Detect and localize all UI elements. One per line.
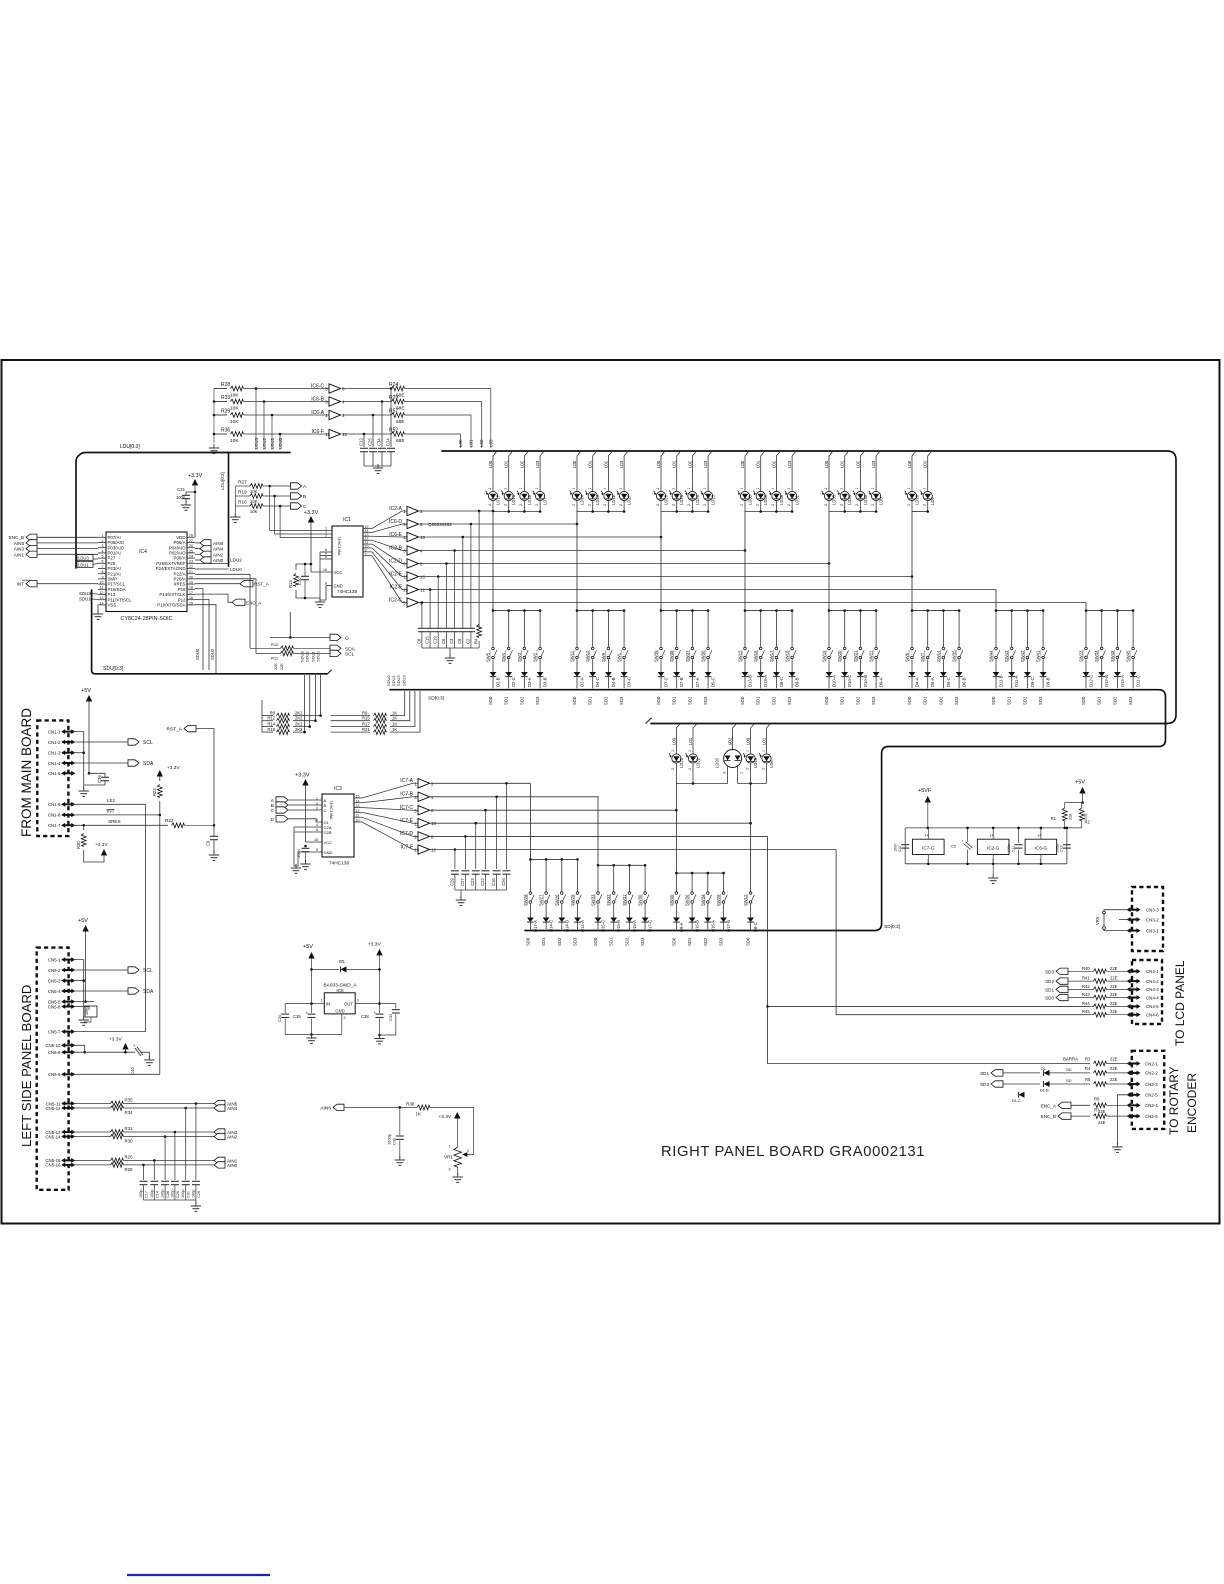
diode D14-C xyxy=(545,904,547,918)
wire to gate xyxy=(244,414,330,416)
svg-text:100p: 100p xyxy=(161,1190,165,1198)
svg-text:C16: C16 xyxy=(491,878,496,886)
svg-text:R19: R19 xyxy=(238,490,247,496)
svg-text:D11-C: D11-C xyxy=(1136,675,1141,687)
svg-text:SW1: SW1 xyxy=(617,652,622,662)
svg-text:C22: C22 xyxy=(480,878,485,886)
bus SDU[0:3] xyxy=(92,590,328,674)
svg-text:CN1-3: CN1-3 xyxy=(48,751,61,756)
wire scan row 2 xyxy=(429,796,599,798)
svg-text:74HC138A: 74HC138A xyxy=(329,800,334,820)
svg-text:VR5: VR5 xyxy=(1095,916,1100,925)
svg-text:AIN0: AIN0 xyxy=(227,1163,238,1168)
wire to L-bus xyxy=(405,402,482,449)
svg-text:100p: 100p xyxy=(139,1190,143,1198)
svg-text:C34: C34 xyxy=(377,438,382,446)
svg-text:2: 2 xyxy=(771,504,775,506)
svg-text:22: 22 xyxy=(189,565,193,569)
ic IC6-G power pins xyxy=(1025,839,1057,854)
svg-text:L01: L01 xyxy=(588,460,593,468)
svg-text:+3.3V: +3.3V xyxy=(295,773,310,779)
svg-text:LD17: LD17 xyxy=(496,494,501,505)
LED LD35 xyxy=(829,451,833,490)
svg-text:R36: R36 xyxy=(221,428,230,434)
svg-text:SD3: SD3 xyxy=(1045,969,1054,974)
net tag AIN6 xyxy=(195,542,200,544)
svg-text:SDU2: SDU2 xyxy=(210,648,215,660)
svg-text:SD0: SD0 xyxy=(572,696,577,705)
bus LDU vertical branch xyxy=(228,453,230,567)
svg-text:R42: R42 xyxy=(1082,984,1090,989)
switch SW6 xyxy=(911,611,913,647)
svg-text:L03: L03 xyxy=(787,460,792,468)
svg-text:22E: 22E xyxy=(1110,1009,1118,1014)
power +5V xyxy=(86,695,92,702)
pin CN4-5 xyxy=(1128,1005,1139,1007)
svg-text:+5VF: +5VF xyxy=(918,788,932,794)
svg-text:8: 8 xyxy=(325,582,327,586)
pin 7 P23/AI xyxy=(98,568,106,570)
LED LD29 xyxy=(761,451,765,490)
svg-text:IC7-B: IC7-B xyxy=(400,792,413,798)
diode D4-A xyxy=(911,660,913,673)
pin CN2-6 xyxy=(1128,1115,1139,1117)
pin 22 P24/EXTAGND xyxy=(187,568,195,570)
ground of regulator input xyxy=(311,1034,313,1038)
wire row D to CN4-5 xyxy=(768,836,1091,1063)
diode D5 xyxy=(312,968,340,970)
svg-text:OUT: OUT xyxy=(344,1001,353,1006)
svg-text:100n: 100n xyxy=(85,1007,89,1015)
capacitor C32 xyxy=(380,1004,396,1009)
svg-text:D1: D1 xyxy=(1041,1067,1046,1071)
pin 28 VDD xyxy=(187,536,195,538)
svg-text:R35: R35 xyxy=(125,1098,134,1103)
svg-text:1: 1 xyxy=(671,750,675,752)
resistor R44 22E xyxy=(1094,1004,1107,1009)
svg-text:CN4-4: CN4-4 xyxy=(1146,995,1159,1000)
wire switch group top join xyxy=(530,858,577,860)
label LDU2 xyxy=(195,563,229,565)
capacitor C38 polarized xyxy=(379,1004,381,1013)
svg-text:R15: R15 xyxy=(362,716,370,721)
svg-text:22E: 22E xyxy=(1110,992,1118,997)
svg-text:D6-A: D6-A xyxy=(930,677,935,687)
svg-text:7: 7 xyxy=(365,552,367,556)
wire left vertical input rail xyxy=(213,389,215,444)
wire switch group top join xyxy=(829,610,876,612)
gate IC2-D xyxy=(407,559,419,568)
LED LD23 xyxy=(708,451,712,490)
svg-text:10K: 10K xyxy=(250,499,258,504)
svg-text:22E: 22E xyxy=(1110,976,1118,981)
diode D10-C xyxy=(844,660,846,673)
net tag RST_A at XRES xyxy=(195,583,240,585)
svg-text:R45: R45 xyxy=(1082,1009,1090,1014)
svg-text:SD1: SD1 xyxy=(609,937,614,946)
svg-text:L00: L00 xyxy=(656,460,661,468)
wire select row 5 xyxy=(418,563,829,565)
net tag ENC_A xyxy=(195,594,232,602)
resistor network CN5-5 CN5-6 xyxy=(74,1001,95,1003)
LED LD20 dual xyxy=(733,724,737,750)
svg-text:SW22: SW22 xyxy=(869,650,874,662)
svg-text:D14-A: D14-A xyxy=(580,920,585,932)
svg-text:SD1: SD1 xyxy=(980,1071,989,1076)
svg-text:R34: R34 xyxy=(125,1110,134,1115)
svg-text:LDU1: LDU1 xyxy=(270,437,275,449)
net tag C xyxy=(263,505,291,507)
svg-text:L00: L00 xyxy=(458,439,463,447)
pin CN2-5 xyxy=(1128,1094,1139,1096)
svg-text:D4-A: D4-A xyxy=(915,677,920,687)
svg-text:C14: C14 xyxy=(155,1191,159,1198)
svg-text:8: 8 xyxy=(102,570,104,574)
svg-text:1: 1 xyxy=(761,750,765,752)
capacitor C13 100n xyxy=(1063,844,1071,846)
svg-text:D14-B: D14-B xyxy=(564,920,569,932)
svg-text:2: 2 xyxy=(871,504,875,506)
svg-text:R13: R13 xyxy=(288,580,293,588)
svg-text:R25: R25 xyxy=(125,1167,134,1172)
svg-text:D7-C: D7-C xyxy=(664,677,669,687)
capacitor C35 polarized xyxy=(311,1004,313,1013)
potentiometer VR1 xyxy=(454,1147,462,1167)
svg-text:LD19: LD19 xyxy=(915,494,920,505)
wire switch group top join xyxy=(577,610,624,612)
svg-text:IC2-C: IC2-C xyxy=(389,597,402,603)
svg-text:SD1: SD1 xyxy=(1097,696,1102,705)
svg-text:SW20: SW20 xyxy=(837,650,842,662)
svg-text:LD5: LD5 xyxy=(879,497,884,505)
diode D17-A xyxy=(529,904,531,918)
switch SW42 xyxy=(1026,611,1028,647)
net tag AIN0 xyxy=(195,559,200,561)
switch SW44 xyxy=(995,611,997,647)
svg-text:R30: R30 xyxy=(76,841,81,849)
wire LED group riser xyxy=(744,512,746,551)
svg-text:+3.3V: +3.3V xyxy=(167,765,180,771)
svg-text:68E: 68E xyxy=(396,419,405,425)
svg-text:CN3-1: CN3-1 xyxy=(1146,928,1159,933)
svg-text:IC2-B: IC2-B xyxy=(389,545,402,551)
svg-text:2: 2 xyxy=(519,504,523,506)
svg-text:C8: C8 xyxy=(416,638,421,644)
wire CN3-2 stub xyxy=(1119,919,1129,921)
svg-text:LD20: LD20 xyxy=(715,757,720,768)
svg-text:16: 16 xyxy=(323,568,327,572)
svg-text:LEFT SIDE PANEL BOARD: LEFT SIDE PANEL BOARD xyxy=(19,985,34,1147)
svg-text:CN3-2: CN3-2 xyxy=(1146,917,1159,922)
svg-text:R33: R33 xyxy=(221,395,230,401)
wire IC1 input A xyxy=(270,486,332,531)
net tag SD1 xyxy=(991,1070,1003,1076)
svg-text:SD3: SD3 xyxy=(980,1082,989,1087)
wire P20 to SCL row xyxy=(195,579,256,654)
svg-text:D7-B: D7-B xyxy=(679,677,684,687)
wire select row 6 xyxy=(418,576,912,578)
net tag AIN2 xyxy=(195,553,200,555)
wire select row 3 xyxy=(418,536,661,538)
svg-text:22E: 22E xyxy=(1110,1001,1118,1006)
wire switch group riser xyxy=(1085,603,1087,611)
svg-text:SD2: SD2 xyxy=(703,937,708,946)
svg-text:SD3: SD3 xyxy=(1128,696,1133,705)
svg-text:D10-C: D10-C xyxy=(847,675,852,687)
svg-text:C19: C19 xyxy=(433,636,438,644)
switch SW41 xyxy=(1042,611,1044,647)
svg-text:R17: R17 xyxy=(362,722,370,727)
svg-text:SD0: SD0 xyxy=(991,696,996,705)
svg-text:13: 13 xyxy=(403,588,408,593)
svg-text:SD0: SD0 xyxy=(740,696,745,705)
switch SW32 xyxy=(613,865,615,891)
switch SW15 xyxy=(744,611,746,647)
wire rail for R27 block xyxy=(234,486,236,513)
wire switch group top join xyxy=(996,610,1043,612)
svg-text:SW6: SW6 xyxy=(905,652,910,662)
pin CN3-1 xyxy=(1128,930,1139,932)
svg-text:AIN3: AIN3 xyxy=(14,547,25,552)
svg-text:R24: R24 xyxy=(389,382,398,388)
pin 16 P12 xyxy=(187,599,195,601)
resistor R31 xyxy=(74,1131,111,1133)
svg-text:D2-A: D2-A xyxy=(580,677,585,687)
wire LED group riser xyxy=(576,512,578,525)
switch SW30 xyxy=(644,865,646,891)
svg-text:4: 4 xyxy=(102,549,104,553)
switch SW27 xyxy=(545,859,547,891)
wire to L-bus xyxy=(405,389,491,449)
svg-text:LDU[0:3]: LDU[0:3] xyxy=(120,444,140,450)
svg-text:2: 2 xyxy=(907,504,911,506)
svg-text:3: 3 xyxy=(357,999,359,1003)
svg-text:R30: R30 xyxy=(125,1139,134,1144)
switch SW16 xyxy=(760,611,762,647)
svg-text:100p: 100p xyxy=(191,1190,195,1198)
svg-text:C27: C27 xyxy=(460,878,465,886)
resistor R57 68E xyxy=(342,414,392,416)
svg-text:SD1: SD1 xyxy=(1007,696,1012,705)
LED LD7 xyxy=(540,451,544,490)
svg-text:22E: 22E xyxy=(1110,984,1118,989)
svg-text:L02: L02 xyxy=(519,460,524,468)
svg-text:D9-C: D9-C xyxy=(1030,677,1035,687)
svg-text:SD3: SD3 xyxy=(787,696,792,705)
svg-text:11: 11 xyxy=(403,575,408,580)
svg-text:SW33: SW33 xyxy=(591,894,596,906)
diode D17-B xyxy=(723,904,725,918)
power +3.3V at regulator xyxy=(376,949,382,956)
svg-text:LD7: LD7 xyxy=(543,497,548,505)
svg-text:LD23: LD23 xyxy=(711,494,716,505)
svg-text:SD2: SD2 xyxy=(603,696,608,705)
svg-text:R23: R23 xyxy=(152,788,157,796)
svg-text:L01: L01 xyxy=(756,460,761,468)
net tag AIN3 xyxy=(124,1131,215,1133)
wire to VR1 wiper xyxy=(466,1107,474,1154)
resistor R13 10K xyxy=(294,574,299,587)
svg-text:1: 1 xyxy=(688,750,692,752)
svg-text:SD3: SD3 xyxy=(1038,696,1043,705)
svg-text:1: 1 xyxy=(321,999,323,1003)
svg-text:15: 15 xyxy=(356,795,360,799)
svg-text:26: 26 xyxy=(189,544,193,548)
ic IC2-G power pins xyxy=(977,839,1009,854)
svg-text:CN5-9: CN5-9 xyxy=(48,1072,61,1077)
wire LED group join xyxy=(577,511,624,513)
svg-text:C32: C32 xyxy=(388,1013,393,1021)
wire to L-bus xyxy=(405,434,461,448)
svg-text:D11-B: D11-B xyxy=(999,675,1004,687)
svg-text:LD21: LD21 xyxy=(696,757,701,768)
capacitor C40 polarized xyxy=(135,1048,141,1056)
pin CN2-2 xyxy=(1128,1072,1139,1074)
svg-text:CN4-2: CN4-2 xyxy=(1146,979,1159,984)
resistor network R8 R12 R14 R18 2K2 xyxy=(262,715,273,717)
svg-text:SD: SD xyxy=(1066,1078,1072,1083)
wires IC1 outputs to gate bank xyxy=(363,511,407,529)
svg-text:SD2: SD2 xyxy=(1112,696,1117,705)
diode D3-C xyxy=(623,660,625,673)
resistor R39 10K xyxy=(214,414,227,416)
diode D5-C xyxy=(707,660,709,673)
LED LD13 xyxy=(593,451,597,490)
svg-text:SW45: SW45 xyxy=(1126,650,1131,662)
svg-text:D9-A: D9-A xyxy=(679,922,684,932)
net tag ENC_A xyxy=(1058,1102,1071,1108)
wire GND pin8 xyxy=(326,585,332,587)
net tag AIN3 xyxy=(26,545,37,551)
svg-text:SW37: SW37 xyxy=(685,650,690,662)
pin 26 P04/AIO xyxy=(187,547,195,549)
wire CN5-9 INT xyxy=(74,1073,160,1075)
svg-text:23: 23 xyxy=(189,560,193,564)
svg-text:2: 2 xyxy=(761,768,765,770)
svg-text:D3-A: D3-A xyxy=(527,677,532,687)
svg-text:LD14: LD14 xyxy=(580,494,585,505)
wire LED group join xyxy=(493,511,540,513)
svg-text:VR1: VR1 xyxy=(444,1155,453,1160)
svg-text:68E: 68E xyxy=(396,438,405,444)
svg-text:R57: R57 xyxy=(389,409,398,415)
svg-text:R16: R16 xyxy=(238,500,247,506)
resistor R38 1K xyxy=(417,1105,430,1110)
capacitor C11 100n xyxy=(1018,828,1020,843)
svg-text:SW27: SW27 xyxy=(539,894,544,906)
resistor R10 22E xyxy=(250,647,281,649)
LED LD17 xyxy=(493,451,497,490)
svg-text:D8-C: D8-C xyxy=(779,677,784,687)
net tag AIN5 xyxy=(124,1103,215,1105)
resistor R36 10K xyxy=(214,433,227,435)
svg-text:LDU3: LDU3 xyxy=(78,556,89,561)
svg-text:C: C xyxy=(271,808,275,814)
ground under cap row xyxy=(460,890,462,898)
svg-text:22E: 22E xyxy=(1110,1066,1118,1071)
svg-text:IC6-F: IC6-F xyxy=(312,429,325,435)
connector CN2 box xyxy=(1132,1051,1164,1129)
svg-text:SDU0: SDU0 xyxy=(316,651,321,662)
pin CN2-4 xyxy=(1128,1104,1139,1106)
diode D16-B xyxy=(691,904,693,918)
svg-text:1: 1 xyxy=(907,487,911,489)
svg-text:SW17: SW17 xyxy=(769,650,774,662)
wire IC3 VCC xyxy=(306,841,323,843)
wire switch group riser xyxy=(660,537,662,611)
bus LDU[0:3] xyxy=(76,453,290,569)
power +5V at regulator xyxy=(308,952,314,959)
svg-text:SW29: SW29 xyxy=(716,894,721,906)
net tag D input xyxy=(276,816,288,822)
wire switch group top join xyxy=(912,610,959,612)
wire CN1-7 SRES xyxy=(74,824,169,826)
svg-text:R22: R22 xyxy=(165,818,174,823)
wire power rail bottom xyxy=(904,828,906,864)
svg-text:SW31: SW31 xyxy=(622,894,627,906)
svg-text:SD2: SD2 xyxy=(557,937,562,946)
svg-text:C17: C17 xyxy=(145,1191,149,1198)
svg-text:L03: L03 xyxy=(619,460,624,468)
svg-text:SD3: SD3 xyxy=(640,937,645,946)
svg-text:C21: C21 xyxy=(177,487,186,492)
pin CN4-3 xyxy=(1128,988,1139,990)
svg-text:B: B xyxy=(303,494,306,500)
switch SW18 xyxy=(791,611,793,647)
net tag ENC_B xyxy=(1058,1113,1071,1119)
wire CN3-1 xyxy=(1104,930,1129,931)
svg-text:AIN2: AIN2 xyxy=(213,552,224,557)
net tag SDA xyxy=(330,645,341,651)
net tag SCL xyxy=(330,650,341,656)
switch SW36 xyxy=(707,611,709,647)
svg-text:LDU1: LDU1 xyxy=(78,563,89,568)
wire switch group riser xyxy=(576,524,578,611)
svg-text:IC7-A: IC7-A xyxy=(400,778,413,784)
svg-text:SDU3: SDU3 xyxy=(300,651,305,662)
svg-text:7: 7 xyxy=(992,859,994,863)
svg-text:LD15: LD15 xyxy=(527,494,532,505)
svg-text:SW39: SW39 xyxy=(654,650,659,662)
svg-text:SW14: SW14 xyxy=(936,650,941,662)
diode D9-B xyxy=(1042,660,1044,673)
svg-text:LD13: LD13 xyxy=(595,494,600,505)
svg-text:SD2: SD2 xyxy=(1022,696,1027,705)
wire IC1 input B xyxy=(275,496,332,534)
svg-text:CN4-1: CN4-1 xyxy=(1146,969,1159,974)
svg-text:SW11: SW11 xyxy=(570,650,575,662)
svg-text:LD22: LD22 xyxy=(679,757,684,768)
svg-text:R11: R11 xyxy=(271,656,279,661)
svg-text:3: 3 xyxy=(316,807,318,811)
svg-text:D9-A: D9-A xyxy=(879,677,884,687)
wires SDU bus to network xyxy=(293,675,321,716)
svg-text:R7: R7 xyxy=(1094,1108,1100,1113)
wire select row 7 xyxy=(418,589,996,591)
svg-text:RIGHT PANEL BOARD GRA0002131: RIGHT PANEL BOARD GRA0002131 xyxy=(661,1144,925,1160)
svg-text:12: 12 xyxy=(100,591,104,595)
gate IC7-D xyxy=(418,832,430,841)
svg-text:AIN6: AIN6 xyxy=(320,1105,331,1111)
svg-text:LD34: LD34 xyxy=(847,494,852,505)
wire scan row 5 xyxy=(429,835,768,837)
switch SW40 xyxy=(675,873,677,891)
svg-text:1: 1 xyxy=(535,487,539,489)
switch SW33 xyxy=(597,865,599,891)
LED LD21 xyxy=(693,724,697,753)
ic IC1 74HC138 box xyxy=(332,526,363,597)
capacitor C12 C25 C34 C24 row xyxy=(363,433,366,436)
